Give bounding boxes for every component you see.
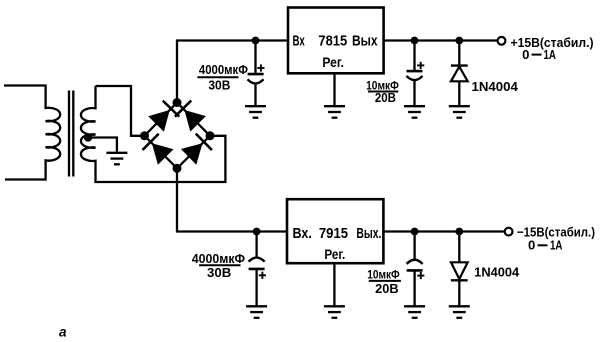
- svg-text:30В: 30В: [207, 265, 231, 280]
- svg-text:1N4004: 1N4004: [472, 80, 518, 94]
- label figure a: [59, 325, 67, 340]
- wire U1 ground stub: [333, 73, 335, 105]
- wire 7815 output rail: [384, 39, 498, 41]
- diode VD2 bridge right-top: [175, 101, 206, 132]
- label U1 7815: [318, 34, 347, 50]
- diode VD6 1N4004 upper lead: [458, 232, 460, 263]
- node VD5 junction: [455, 37, 463, 45]
- svg-text:−15В(стабил.): −15В(стабил.): [517, 224, 595, 239]
- wire secondary top to bridge left node: [96, 86, 144, 136]
- diode VD6 lower lead: [458, 280, 460, 305]
- ground VD6: [449, 306, 470, 318]
- capacitor C2 polarity +: [417, 62, 424, 69]
- label U2 7915: [319, 226, 348, 242]
- node C4 junction: [411, 228, 419, 236]
- capacitor C3 polarity +: [259, 272, 266, 279]
- svg-text:Вх: Вх: [293, 34, 305, 50]
- node C1 junction: [252, 37, 260, 45]
- label U2 Reg: [324, 246, 345, 262]
- ground U1: [324, 106, 345, 118]
- wire center tap to ground: [88, 138, 117, 152]
- wire U2 ground stub: [333, 263, 335, 305]
- label C1 value 4000mkF/30V: [197, 62, 248, 93]
- capacitor C2 plates: [407, 71, 423, 80]
- label U1 pin Vx: [293, 34, 305, 50]
- label -15V current 0-1A: [528, 239, 563, 253]
- label +15V current 0-1A: [522, 48, 556, 62]
- diode VD6 1N4004 symbol: [451, 262, 468, 280]
- node center tap: [84, 133, 92, 141]
- transformer T1 secondary winding and wire to bridge AC node: [81, 86, 225, 182]
- ground center tap: [106, 153, 127, 165]
- label VD5 1N4004: [472, 80, 518, 94]
- capacitor C4 plates: [407, 260, 423, 271]
- svg-text:20В: 20В: [375, 282, 398, 296]
- diode VD5 lower lead: [458, 81, 460, 105]
- node bridge top (+): [173, 98, 182, 107]
- capacitor C3 4000uF lead: [255, 232, 257, 258]
- capacitor C1 lower lead: [254, 84, 256, 106]
- terminal -15V: [505, 228, 513, 236]
- svg-text:Рег.: Рег.: [322, 54, 344, 70]
- diode VD5 1N4004 symbol: [451, 66, 468, 82]
- terminal +15V: [498, 37, 506, 45]
- ground C1: [245, 106, 266, 118]
- label -15V output: [517, 224, 595, 239]
- node bridge left AC: [140, 131, 149, 140]
- svg-text:0: 0: [528, 239, 535, 253]
- svg-text:1А: 1А: [550, 239, 563, 253]
- diode VD1 bridge left-top: [148, 101, 179, 132]
- ground C4: [404, 306, 425, 318]
- ground U2: [324, 306, 345, 318]
- node bridge bottom (-): [173, 164, 182, 173]
- wire bridge - to 7915 input: [177, 168, 288, 231]
- label C2 value 10mkF/20V: [366, 78, 399, 105]
- diode VD4 bridge bottom-right: [181, 134, 212, 165]
- svg-text:а: а: [59, 325, 67, 340]
- transformer T1 core: [69, 91, 73, 177]
- capacitor C1 plates: [248, 74, 264, 83]
- capacitor C2 10uF lead: [413, 41, 415, 72]
- capacitor C4 lower lead: [413, 270, 415, 305]
- svg-text:30В: 30В: [208, 78, 230, 93]
- regulator U2 7915 box: [287, 199, 383, 263]
- label U2 pin Vyx: [356, 226, 381, 242]
- svg-text:4000мкФ: 4000мкФ: [199, 62, 248, 77]
- svg-text:Вых: Вых: [352, 34, 378, 50]
- transformer T1 primary winding: [4, 86, 60, 180]
- node C2 junction: [411, 37, 419, 45]
- svg-text:1N4004: 1N4004: [474, 266, 519, 280]
- svg-text:7815: 7815: [318, 34, 347, 50]
- capacitor C1 4000uF lead: [254, 41, 256, 75]
- capacitor C2 lower lead: [413, 80, 415, 105]
- diode VD5 1N4004 upper lead: [458, 41, 460, 66]
- svg-text:Вх.: Вх.: [293, 226, 312, 242]
- svg-text:1А: 1А: [544, 48, 557, 62]
- svg-text:4000мкФ: 4000мкФ: [192, 251, 245, 266]
- bridge diamond wires: [145, 103, 211, 169]
- capacitor C3 plates: [249, 258, 265, 269]
- svg-text:7915: 7915: [319, 226, 348, 242]
- capacitor C4 10uF lead: [413, 232, 415, 260]
- svg-text:20В: 20В: [375, 91, 396, 105]
- label +15V output: [511, 35, 594, 50]
- ground VD5: [449, 106, 470, 118]
- label C4 value 10mkF/20V: [367, 268, 401, 297]
- svg-text:Рег.: Рег.: [324, 246, 345, 262]
- label C3 value 4000mkF/30V: [192, 251, 245, 280]
- node C3 junction: [253, 228, 261, 236]
- label U2 pin Vx: [293, 226, 312, 242]
- wire bridge + to 7815 input: [177, 41, 289, 103]
- capacitor C4 polarity +: [417, 272, 424, 279]
- capacitor C1 polarity +: [257, 64, 264, 71]
- label U1 pin Vyx: [352, 34, 378, 50]
- capacitor C3 lower lead: [255, 269, 257, 306]
- diode VD3 bridge bottom-left: [142, 134, 173, 165]
- node VD6 junction: [455, 228, 463, 236]
- node bridge right AC: [206, 131, 215, 140]
- ground C3: [246, 306, 267, 318]
- wire 7915 output rail: [383, 230, 505, 232]
- label VD6 1N4004: [474, 266, 519, 280]
- svg-text:0: 0: [522, 48, 529, 62]
- svg-text:10мкФ: 10мкФ: [367, 268, 400, 282]
- regulator U1 7815 box: [288, 8, 384, 74]
- svg-text:Вых.: Вых.: [356, 226, 381, 242]
- ground C2: [404, 106, 425, 118]
- label U1 Reg: [322, 54, 344, 70]
